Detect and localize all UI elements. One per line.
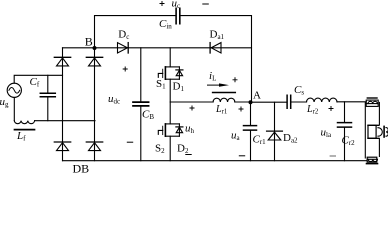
- wire S2 source to rail: [169, 136, 171, 161]
- label +udc: [123, 67, 128, 72]
- wire Cf branch: [47, 75, 49, 120]
- ac source ug: [7, 83, 21, 97]
- svg-text:B: B: [85, 34, 93, 48]
- capacitor Cs: [287, 95, 291, 108]
- diode Da1: [210, 43, 221, 53]
- wire ac bottom to bridge: [35, 120, 95, 122]
- node A: [249, 100, 253, 104]
- inductor Lf: [14, 121, 34, 124]
- wire Lr2 to lamp: [337, 101, 366, 103]
- wire top rail B to A corner via Cin: [95, 16, 252, 103]
- wire CB branch: [140, 48, 142, 161]
- bridge diode top-right: [86, 57, 102, 66]
- wire A down Cr1: [250, 102, 252, 161]
- svg-text:A: A: [253, 90, 261, 102]
- label -uc: [202, 3, 209, 5]
- transistor S1: [158, 48, 179, 79]
- diode Da2: [267, 131, 283, 140]
- wire main horizontal bus y=47.8: [63, 47, 252, 49]
- diode D2: [176, 124, 183, 136]
- wire half-bridge mid: [169, 79, 171, 124]
- wire Cs to Lr2: [291, 101, 306, 103]
- capacitor CB: [133, 102, 149, 106]
- capacitor Cr1: [244, 126, 257, 131]
- transistor S2: [158, 124, 179, 136]
- current arrow iL: [207, 83, 229, 86]
- label -udc: [127, 141, 133, 143]
- diode D1: [176, 67, 183, 79]
- wire Cr2 branch: [344, 102, 346, 161]
- lamp tube outline: [365, 102, 379, 157]
- diode Dc: [118, 43, 129, 53]
- svg-text:uc: uc: [172, 0, 181, 10]
- label +ua: [239, 107, 244, 112]
- wire Da2 branch: [274, 102, 276, 161]
- wire ac bottom: [13, 97, 15, 120]
- wire left bridge leg: [62, 48, 64, 161]
- bridge diode bottom-right: [86, 142, 102, 151]
- capacitor Cr2: [338, 123, 352, 128]
- wire A to Cs: [251, 101, 287, 103]
- node B: [93, 46, 97, 50]
- wire midpoint to Lr1: [170, 101, 213, 103]
- label +uh: [190, 106, 195, 111]
- label +A: [233, 77, 238, 82]
- lamp middle electrode: [368, 125, 388, 138]
- wire right bridge leg: [94, 48, 96, 161]
- svg-text:DB: DB: [73, 162, 90, 174]
- capacitor Cf: [40, 93, 55, 97]
- label -ua: [239, 155, 245, 157]
- label +ula: [329, 106, 334, 111]
- bridge diode bottom-left: [54, 142, 70, 151]
- wire bottom rail: [63, 160, 368, 162]
- wire ac top: [14, 75, 62, 83]
- lamp top filament: [366, 98, 378, 106]
- inductor Lr2: [307, 98, 338, 102]
- inductor Lr1: [213, 98, 235, 102]
- wire Lr1 to A: [235, 101, 252, 103]
- capacitor Cin: [176, 8, 180, 23]
- lamp bottom filament: [367, 157, 378, 163]
- bridge diode top-left: [54, 57, 70, 66]
- label -uh: [185, 154, 191, 156]
- label +uc: [160, 1, 165, 6]
- label -ula: [330, 155, 336, 157]
